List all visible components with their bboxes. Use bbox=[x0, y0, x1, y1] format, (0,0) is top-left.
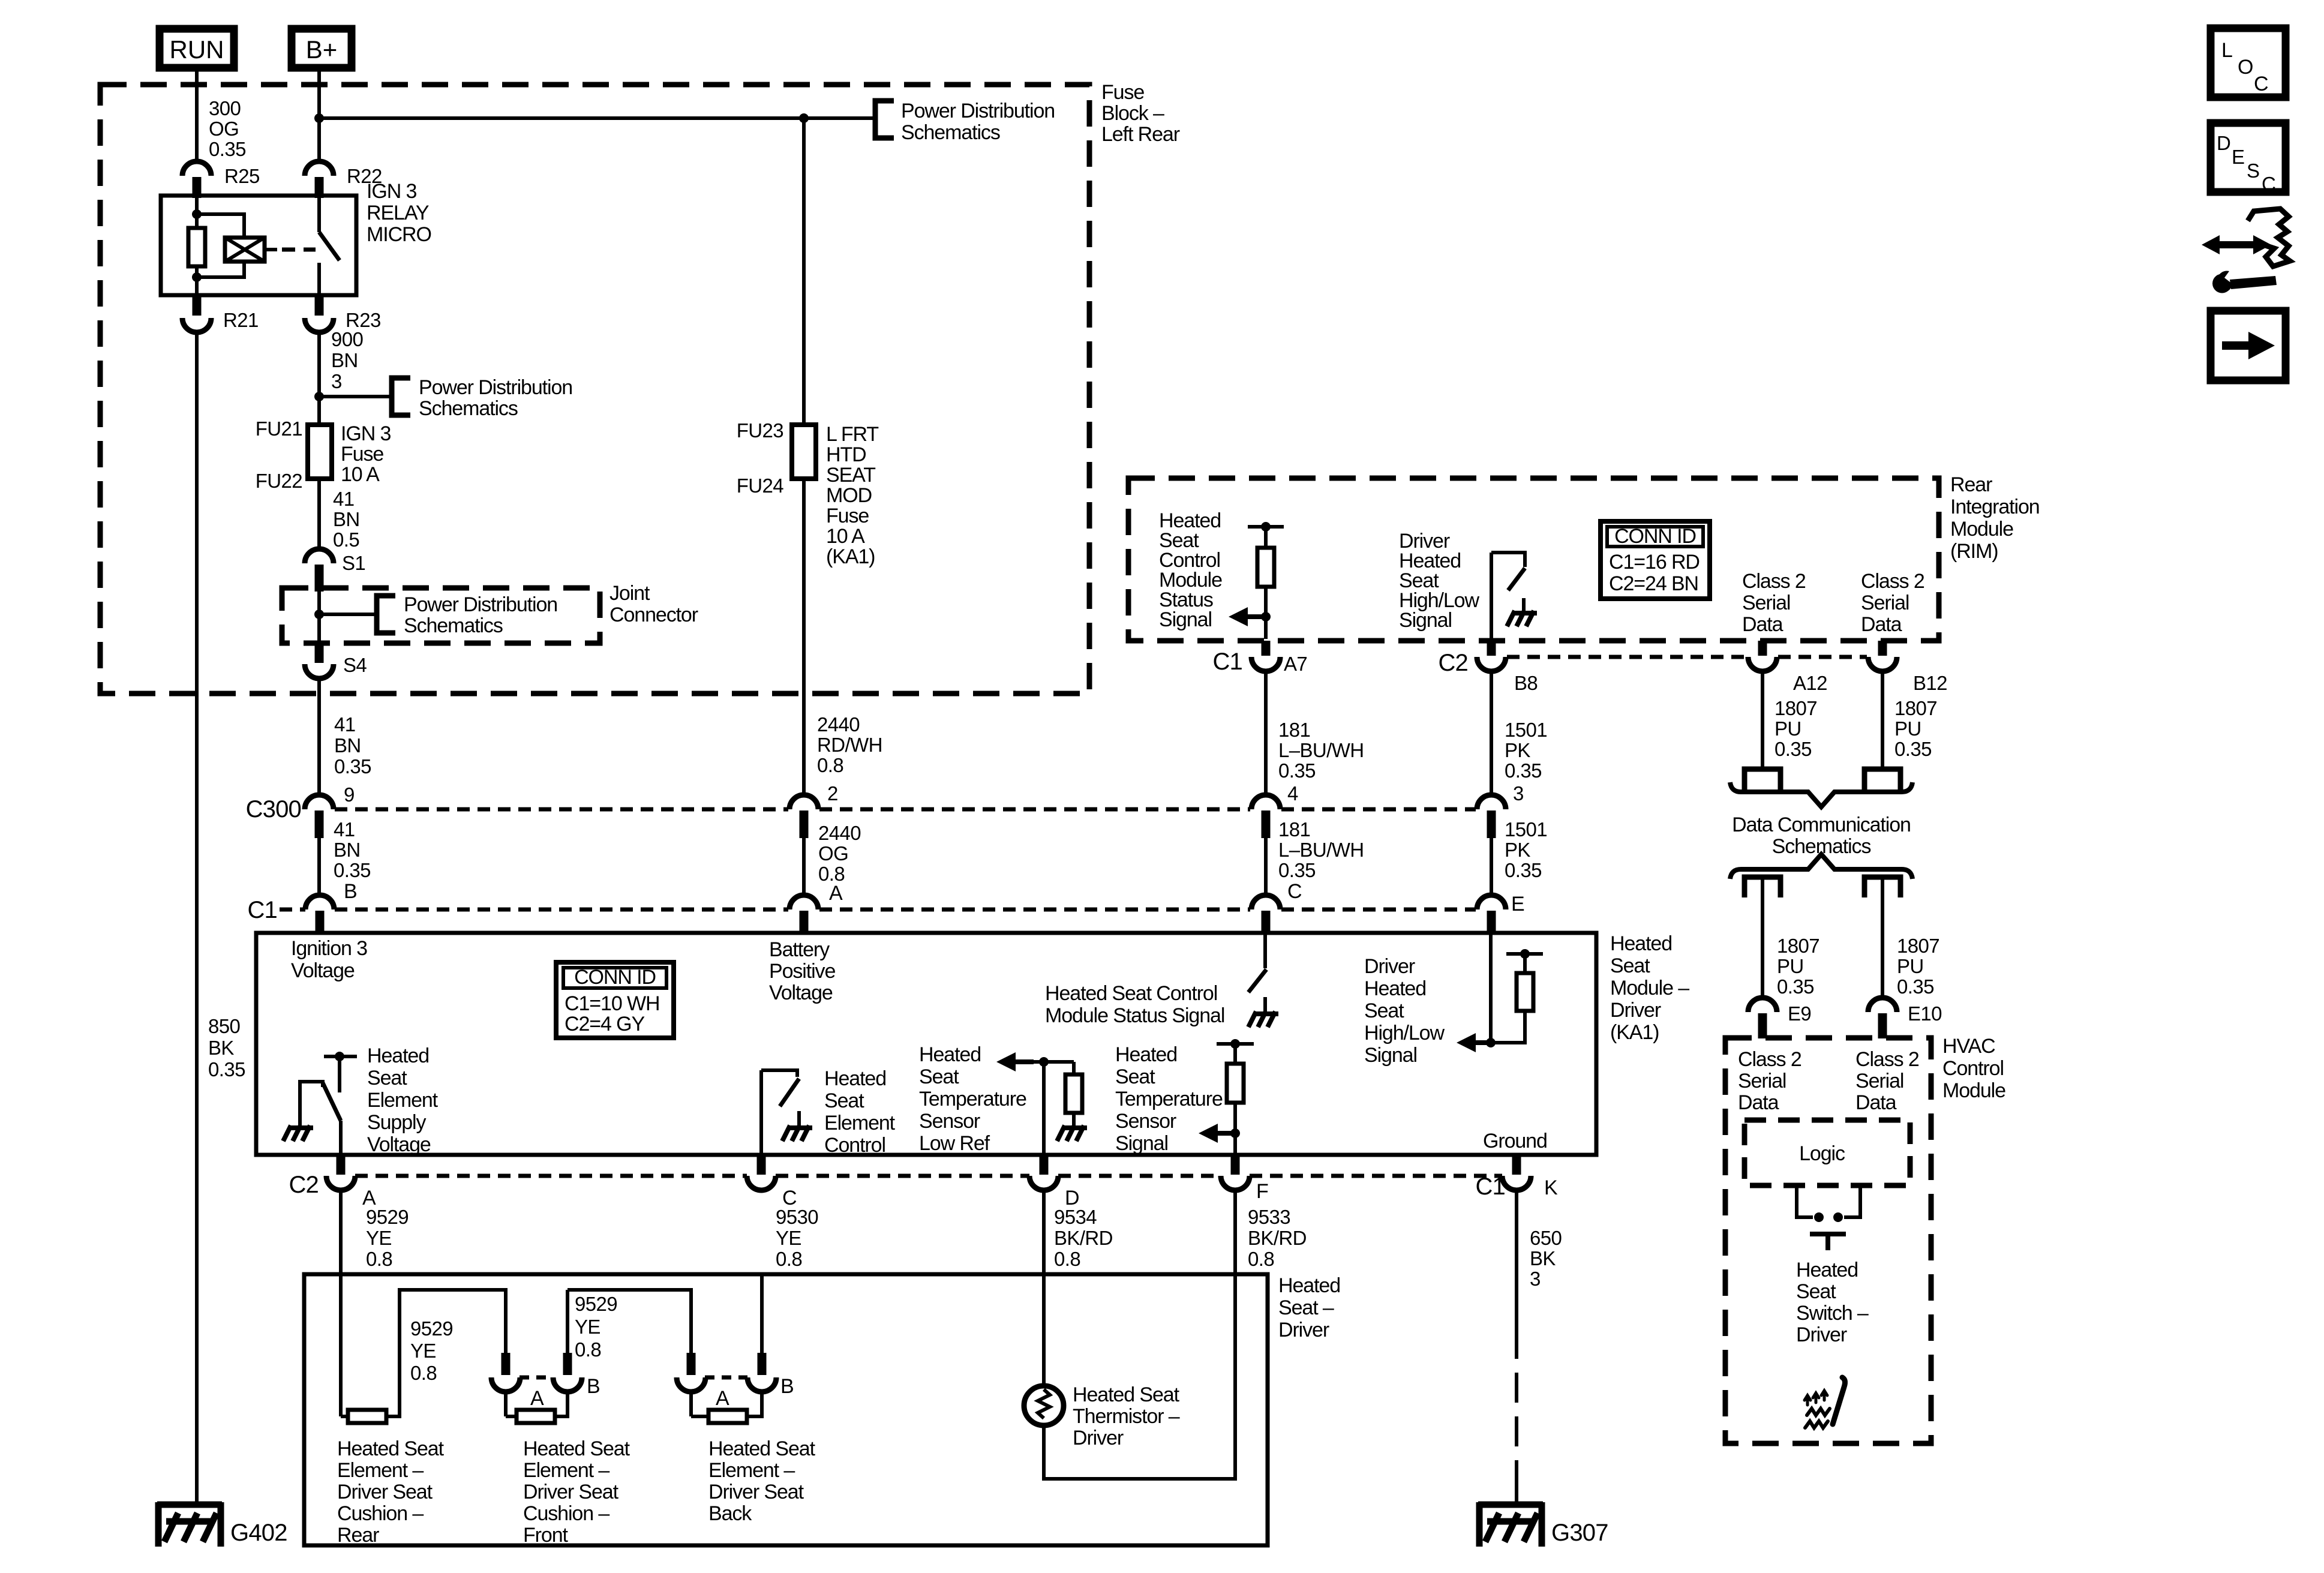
svg-text:Ignition 3: Ignition 3 bbox=[291, 937, 367, 960]
svg-text:9529: 9529 bbox=[366, 1206, 409, 1228]
relay switch arm bbox=[319, 232, 340, 260]
svg-text:R21: R21 bbox=[223, 309, 259, 331]
switch common T terminal bbox=[1810, 1232, 1846, 1236]
ground (supply switch) bbox=[283, 1125, 313, 1141]
svg-text:Heated: Heated bbox=[1278, 1274, 1340, 1297]
arrow high/low in bbox=[1457, 1033, 1476, 1052]
svg-text:(KA1): (KA1) bbox=[826, 545, 875, 568]
heated seat element driver seat back (resistor) bbox=[689, 1391, 693, 1416]
switch arm (supply) bbox=[323, 1083, 341, 1121]
svg-text:Serial: Serial bbox=[1855, 1070, 1903, 1092]
svg-text:A: A bbox=[530, 1387, 544, 1410]
svg-text:Data: Data bbox=[1738, 1091, 1779, 1114]
connector C1 pin C bbox=[1251, 895, 1280, 909]
svg-text:3: 3 bbox=[331, 370, 342, 392]
wire to C2-D bbox=[1042, 1062, 1046, 1155]
svg-text:181: 181 bbox=[1278, 818, 1310, 840]
svg-text:9534: 9534 bbox=[1054, 1206, 1097, 1228]
connector pin A12 bbox=[1748, 657, 1777, 671]
svg-text:A: A bbox=[829, 882, 843, 905]
tab Power Distribution Schematics (joint) bbox=[377, 596, 395, 633]
svg-text:Fuse: Fuse bbox=[341, 443, 383, 466]
svg-text:1501: 1501 bbox=[1505, 719, 1547, 741]
svg-text:C: C bbox=[2262, 173, 2275, 195]
connector R25 bbox=[182, 161, 211, 176]
ground (element control switch) bbox=[782, 1125, 812, 1141]
svg-text:C2: C2 bbox=[1438, 650, 1468, 676]
wire 181 L-BU/WH lower bbox=[1264, 838, 1268, 895]
svg-text:L–BU/WH: L–BU/WH bbox=[1278, 739, 1364, 761]
svg-text:2440: 2440 bbox=[818, 822, 861, 844]
svg-text:Integration: Integration bbox=[1950, 496, 2040, 518]
svg-text:Data: Data bbox=[1861, 613, 1902, 636]
tab Power Distribution Schematics (B+) bbox=[875, 101, 894, 138]
svg-text:E9: E9 bbox=[1788, 1002, 1811, 1025]
connector R22 bbox=[305, 161, 334, 176]
svg-text:0.8: 0.8 bbox=[1054, 1248, 1080, 1270]
wire C pin to switch bbox=[759, 1070, 763, 1155]
wire 9530 element3 B to C bbox=[760, 1274, 764, 1353]
svg-text:Module: Module bbox=[1950, 518, 2013, 541]
svg-text:Logic: Logic bbox=[1799, 1142, 1845, 1165]
switch ground lead bbox=[1522, 598, 1526, 613]
svg-text:Heated: Heated bbox=[1610, 932, 1672, 955]
connector element3 pin B bbox=[747, 1377, 776, 1392]
svg-text:C2=24 BN: C2=24 BN bbox=[1609, 572, 1698, 595]
wire 9534 to thermistor bbox=[1042, 1190, 1046, 1386]
svg-text:Driver: Driver bbox=[1364, 955, 1415, 978]
terminal from data communication (E9) bbox=[1744, 877, 1780, 897]
connector C300 pin 9 bbox=[305, 795, 334, 809]
svg-text:Class 2: Class 2 bbox=[1738, 1048, 1801, 1071]
connector C2 pin C bbox=[747, 1176, 776, 1190]
svg-text:0.8: 0.8 bbox=[1248, 1248, 1274, 1270]
wire 1807 PU upper left bbox=[1761, 671, 1764, 769]
relay IGN 3 RELAY MICRO box bbox=[161, 196, 356, 295]
ground (RIM high/low switch) bbox=[1507, 611, 1537, 626]
connector R23 bbox=[305, 318, 334, 332]
Heated Seat - Driver box bbox=[304, 1274, 1268, 1545]
wire 181 L-BU/WH upper bbox=[1264, 671, 1268, 795]
svg-text:Heated: Heated bbox=[1115, 1043, 1177, 1066]
svg-text:MOD: MOD bbox=[826, 484, 872, 507]
wire 41 BN 0.5 bbox=[317, 479, 321, 550]
svg-text:CONN ID: CONN ID bbox=[1614, 525, 1696, 548]
wire RUN feed 300 OG bbox=[195, 71, 199, 163]
svg-text:1807: 1807 bbox=[1774, 697, 1817, 719]
svg-text:Class 2: Class 2 bbox=[1855, 1048, 1919, 1071]
svg-text:OG: OG bbox=[209, 118, 239, 140]
svg-text:IGN 3: IGN 3 bbox=[341, 422, 391, 445]
connector pin E10 bbox=[1868, 998, 1897, 1012]
svg-text:Positive: Positive bbox=[769, 960, 835, 983]
svg-text:Left Rear: Left Rear bbox=[1101, 123, 1180, 146]
svg-text:41: 41 bbox=[333, 488, 355, 510]
svg-text:G402: G402 bbox=[230, 1520, 287, 1546]
switch contact dot right bbox=[1833, 1212, 1843, 1222]
svg-text:Driver Seat: Driver Seat bbox=[523, 1481, 619, 1503]
svg-text:2: 2 bbox=[827, 782, 838, 804]
svg-text:Signal: Signal bbox=[1399, 609, 1452, 632]
connector C2 pin D bbox=[1029, 1176, 1058, 1190]
svg-text:D: D bbox=[2217, 132, 2230, 154]
svg-text:1807: 1807 bbox=[1894, 697, 1937, 719]
svg-text:9529: 9529 bbox=[410, 1317, 453, 1340]
connector element2 pin A bbox=[491, 1377, 520, 1392]
heated seat element driver seat cushion front (resistor) bbox=[504, 1391, 508, 1416]
svg-text:Class 2: Class 2 bbox=[1861, 570, 1924, 593]
Heated Seat Module - Driver box bbox=[256, 933, 1596, 1155]
svg-text:Serial: Serial bbox=[1742, 592, 1790, 614]
wire element2 B riser bbox=[566, 1290, 569, 1353]
svg-text:S1: S1 bbox=[342, 552, 365, 574]
svg-text:Seat: Seat bbox=[1115, 1065, 1155, 1088]
wire thermistor loop to F bbox=[1044, 1274, 1235, 1479]
svg-text:Heated Seat: Heated Seat bbox=[337, 1437, 445, 1460]
connector C2 pin A bbox=[326, 1176, 355, 1190]
wire 41 BN 0.35 to C300 bbox=[317, 679, 321, 795]
wire 1807 PU lower right bbox=[1881, 877, 1884, 998]
wire relay coil branch lower bbox=[195, 266, 199, 295]
inline pair dash (element3) bbox=[705, 1376, 747, 1380]
ground lead (status) bbox=[1263, 997, 1267, 1014]
svg-text:Element: Element bbox=[367, 1089, 439, 1112]
svg-text:4: 4 bbox=[1287, 782, 1298, 804]
svg-text:Power Distribution: Power Distribution bbox=[404, 593, 557, 616]
svg-text:0.35: 0.35 bbox=[1774, 738, 1812, 760]
svg-text:YE: YE bbox=[575, 1316, 600, 1338]
svg-text:MICRO: MICRO bbox=[367, 223, 431, 246]
svg-text:Control: Control bbox=[1942, 1057, 2004, 1080]
svg-text:0.35: 0.35 bbox=[1777, 975, 1814, 998]
svg-text:Driver Seat: Driver Seat bbox=[337, 1481, 433, 1503]
svg-text:FU23: FU23 bbox=[737, 419, 783, 442]
junction joint connector bbox=[314, 610, 324, 619]
svg-text:BK/RD: BK/RD bbox=[1248, 1227, 1307, 1249]
junction B+ tap bbox=[314, 113, 324, 123]
svg-text:BN: BN bbox=[331, 349, 358, 371]
brace upper bbox=[1730, 782, 1912, 807]
wire element1 to pair A bbox=[386, 1290, 506, 1416]
junction signal out bbox=[1230, 1128, 1240, 1138]
svg-text:FU22: FU22 bbox=[256, 470, 302, 492]
svg-text:Element –: Element – bbox=[708, 1459, 795, 1482]
Logic dashed box bbox=[1744, 1120, 1910, 1185]
svg-text:E: E bbox=[1511, 893, 1524, 915]
RIM CONN ID table bbox=[1601, 521, 1710, 599]
svg-text:S4: S4 bbox=[343, 654, 367, 676]
svg-text:0.35: 0.35 bbox=[1505, 859, 1542, 881]
temperature sensor signal network bbox=[1217, 1042, 1254, 1046]
svg-text:K: K bbox=[1544, 1176, 1558, 1199]
svg-text:RUN: RUN bbox=[170, 35, 224, 64]
svg-text:C2: C2 bbox=[289, 1172, 319, 1198]
RIM high/low switch bbox=[1490, 553, 1493, 639]
connector row C2/serial dashed bbox=[1507, 655, 1747, 659]
wire to relay coil bbox=[197, 214, 244, 238]
svg-text:BK/RD: BK/RD bbox=[1054, 1227, 1113, 1249]
connector row C1 dashed bbox=[335, 908, 788, 912]
svg-text:0.35: 0.35 bbox=[334, 755, 371, 778]
connector C1 pin K bbox=[1502, 1176, 1531, 1190]
svg-text:B8: B8 bbox=[1514, 672, 1538, 694]
svg-text:Driver: Driver bbox=[1073, 1427, 1124, 1449]
svg-text:Seat: Seat bbox=[367, 1067, 407, 1089]
svg-text:BK: BK bbox=[208, 1037, 234, 1059]
switch contact dot left bbox=[1814, 1212, 1824, 1222]
wire 2440 RD/WH 0.8 bbox=[802, 479, 806, 795]
svg-text:Seat: Seat bbox=[1364, 999, 1404, 1022]
icon wrench/location pointer bbox=[2202, 209, 2290, 293]
wire 650 BK dashed continuation bbox=[1515, 1329, 1518, 1490]
wire through joint connector bbox=[317, 592, 321, 643]
svg-text:650: 650 bbox=[1530, 1227, 1562, 1249]
svg-text:Voltage: Voltage bbox=[769, 981, 833, 1004]
connector C300 pin 3 bbox=[1477, 795, 1506, 809]
svg-text:Seat: Seat bbox=[919, 1065, 959, 1088]
relay resistor bbox=[188, 228, 205, 266]
resistor low ref pull bbox=[1065, 1074, 1082, 1113]
wire 900 BN 3 bbox=[317, 332, 321, 425]
wire relay coil branch upper bbox=[195, 196, 199, 228]
heated seat element driver seat cushion rear (resistor) bbox=[341, 1415, 348, 1418]
svg-text:Driver Seat: Driver Seat bbox=[708, 1481, 804, 1503]
svg-text:300: 300 bbox=[209, 97, 241, 119]
fuse FU23/FU24 L FRT HTD SEAT MOD Fuse 10A bbox=[792, 425, 816, 479]
connector R21 bbox=[182, 318, 211, 332]
svg-text:Fuse: Fuse bbox=[1101, 81, 1144, 104]
svg-text:YE: YE bbox=[366, 1227, 392, 1249]
svg-text:9529: 9529 bbox=[575, 1293, 617, 1315]
ground G307 bbox=[1478, 1502, 1543, 1547]
svg-text:Power Distribution: Power Distribution bbox=[419, 376, 572, 399]
wire 2440 OG 0.8 to C1-A bbox=[802, 838, 806, 895]
svg-text:10 A: 10 A bbox=[826, 525, 865, 548]
svg-text:C: C bbox=[1287, 880, 1302, 903]
svg-text:SEAT: SEAT bbox=[826, 464, 875, 487]
svg-text:B: B bbox=[344, 880, 357, 903]
svg-text:C: C bbox=[2254, 73, 2268, 95]
svg-text:S: S bbox=[2247, 160, 2259, 182]
svg-text:9: 9 bbox=[344, 784, 355, 806]
svg-text:0.35: 0.35 bbox=[1278, 859, 1316, 881]
connector C1 pin A bbox=[789, 895, 818, 909]
connector C1 pin E bbox=[1477, 895, 1506, 909]
fuse FU21/FU22 IGN 3 Fuse 10A bbox=[308, 425, 332, 479]
svg-text:Rear: Rear bbox=[337, 1524, 379, 1547]
svg-text:C300: C300 bbox=[246, 796, 301, 822]
svg-text:10 A: 10 A bbox=[341, 463, 380, 486]
wire 1501 PK lower bbox=[1490, 838, 1493, 895]
svg-text:BN: BN bbox=[333, 508, 360, 530]
svg-text:0.8: 0.8 bbox=[776, 1248, 802, 1270]
wire B+ bus to FU23 bbox=[319, 116, 875, 120]
svg-text:PU: PU bbox=[1897, 955, 1924, 977]
svg-text:Heated: Heated bbox=[367, 1044, 429, 1067]
svg-text:C1: C1 bbox=[247, 897, 277, 923]
wire 1807 PU upper right bbox=[1881, 671, 1884, 769]
svg-text:0.8: 0.8 bbox=[410, 1362, 437, 1384]
svg-text:0.35: 0.35 bbox=[209, 138, 246, 160]
heated seat element supply voltage switch bbox=[324, 1055, 357, 1058]
svg-text:Class 2: Class 2 bbox=[1742, 570, 1806, 593]
svg-text:Fuse: Fuse bbox=[826, 505, 869, 527]
wire 1807 PU lower left bbox=[1761, 877, 1764, 998]
svg-text:BN: BN bbox=[334, 734, 361, 757]
svg-text:(RIM): (RIM) bbox=[1950, 540, 1998, 563]
svg-text:Joint: Joint bbox=[609, 582, 650, 605]
svg-text:B: B bbox=[587, 1375, 600, 1398]
svg-text:41: 41 bbox=[334, 818, 355, 840]
svg-text:Sensor: Sensor bbox=[919, 1110, 980, 1133]
svg-text:Driver: Driver bbox=[1278, 1319, 1329, 1341]
svg-text:1807: 1807 bbox=[1777, 935, 1819, 957]
svg-text:Ground: Ground bbox=[1483, 1130, 1547, 1152]
svg-text:Serial: Serial bbox=[1861, 592, 1909, 614]
svg-text:Signal: Signal bbox=[1115, 1132, 1168, 1155]
svg-text:0.5: 0.5 bbox=[333, 529, 359, 551]
connector element2 pin B bbox=[553, 1377, 582, 1392]
svg-text:0.8: 0.8 bbox=[817, 754, 843, 776]
wire B+ feed bbox=[317, 71, 321, 163]
svg-text:Module Status Signal: Module Status Signal bbox=[1045, 1004, 1224, 1027]
connector row C300 dashed bbox=[335, 807, 788, 812]
svg-text:Element –: Element – bbox=[523, 1459, 609, 1482]
svg-text:R25: R25 bbox=[224, 165, 260, 187]
svg-text:Cushion –: Cushion – bbox=[523, 1502, 609, 1525]
switch jog (element control) bbox=[761, 1070, 797, 1077]
svg-text:Heated Seat Control: Heated Seat Control bbox=[1045, 982, 1217, 1005]
HVAC Control Module dashed box bbox=[1725, 1038, 1931, 1443]
heated seat icon bbox=[1804, 1377, 1845, 1428]
svg-text:9530: 9530 bbox=[776, 1206, 818, 1228]
junction low ref bbox=[1039, 1057, 1049, 1067]
svg-text:1501: 1501 bbox=[1505, 818, 1547, 840]
svg-text:L–BU/WH: L–BU/WH bbox=[1278, 839, 1364, 861]
wire 1501 PK upper bbox=[1490, 671, 1493, 795]
svg-text:B+: B+ bbox=[306, 35, 338, 64]
switch arm (element control) bbox=[780, 1079, 799, 1106]
wire 850 BK to G402 bbox=[195, 332, 199, 1503]
svg-text:RD/WH: RD/WH bbox=[817, 734, 882, 756]
svg-text:Module: Module bbox=[1942, 1079, 2005, 1102]
svg-text:PK: PK bbox=[1505, 839, 1530, 861]
heated seat switch contacts bbox=[1797, 1185, 1813, 1217]
svg-text:Low Ref: Low Ref bbox=[919, 1132, 990, 1155]
svg-text:Front: Front bbox=[523, 1524, 569, 1547]
svg-text:OG: OG bbox=[818, 842, 848, 864]
connector element3 pin A bbox=[677, 1377, 705, 1392]
junction signal T-bar bbox=[1230, 1039, 1240, 1049]
svg-text:FU24: FU24 bbox=[737, 475, 784, 497]
svg-text:Seat: Seat bbox=[1796, 1280, 1836, 1303]
junction 900 BN tap bbox=[314, 392, 324, 401]
resistor signal pull bbox=[1227, 1064, 1244, 1103]
svg-text:0.35: 0.35 bbox=[1278, 760, 1316, 782]
connector row C1 dashed left bbox=[280, 908, 305, 912]
svg-text:PK: PK bbox=[1505, 739, 1530, 761]
svg-text:Switch –: Switch – bbox=[1796, 1302, 1869, 1325]
heated seat thermistor driver bbox=[1024, 1386, 1064, 1425]
svg-text:Block –: Block – bbox=[1101, 102, 1164, 125]
svg-text:CONN ID: CONN ID bbox=[574, 966, 656, 989]
coil actuator lead bbox=[265, 248, 277, 251]
junction FU23 tap bbox=[799, 113, 809, 123]
wire 2440 feed to FU23 bbox=[802, 118, 806, 425]
svg-text:Heated: Heated bbox=[824, 1067, 886, 1090]
svg-text:0.8: 0.8 bbox=[575, 1338, 601, 1361]
resistor high/low pull bbox=[1517, 973, 1533, 1011]
svg-text:Serial: Serial bbox=[1738, 1070, 1786, 1092]
svg-text:1807: 1807 bbox=[1897, 935, 1939, 957]
terminal box RUN bbox=[160, 29, 234, 68]
svg-text:L: L bbox=[2221, 39, 2232, 62]
fuse block dashed box (Fuse Block - Left Rear) bbox=[100, 85, 1089, 694]
svg-text:2440: 2440 bbox=[817, 713, 860, 736]
svg-text:Thermistor –: Thermistor – bbox=[1073, 1405, 1180, 1428]
connector C300 pin 4 bbox=[1251, 795, 1280, 809]
module CONN ID table bbox=[556, 962, 674, 1038]
svg-text:HVAC: HVAC bbox=[1942, 1035, 1995, 1058]
svg-text:Cushion –: Cushion – bbox=[337, 1502, 424, 1525]
terminal box B+ bbox=[292, 29, 352, 68]
svg-text:BN: BN bbox=[334, 839, 361, 861]
wire 9533 to thermistor loop bbox=[1233, 1190, 1237, 1274]
svg-text:Heated: Heated bbox=[1364, 977, 1426, 1000]
svg-text:0.35: 0.35 bbox=[1897, 975, 1934, 998]
svg-text:Seat: Seat bbox=[1610, 954, 1650, 977]
svg-text:3: 3 bbox=[1513, 782, 1524, 804]
wire C1-C to status switch bbox=[1263, 933, 1267, 968]
svg-text:Temperature: Temperature bbox=[1115, 1088, 1223, 1110]
ground (status switch) bbox=[1248, 1011, 1278, 1027]
ground G402 bbox=[157, 1502, 222, 1547]
terminal from data communication (E10) bbox=[1864, 877, 1900, 897]
icon LOC bbox=[2211, 28, 2286, 97]
arrow low ref bbox=[996, 1052, 1016, 1071]
connector row C2 dashed bbox=[355, 1174, 747, 1178]
svg-text:PU: PU bbox=[1774, 718, 1801, 740]
svg-text:Seat: Seat bbox=[824, 1089, 864, 1112]
connector C300 pin 2 bbox=[789, 795, 818, 809]
switch arm high/low bbox=[1508, 568, 1525, 590]
ground lead (element control) bbox=[797, 1111, 801, 1128]
tab Power Distribution Schematics (IGN3) bbox=[392, 378, 410, 415]
wire C1-E to high/low bbox=[1489, 933, 1493, 1043]
svg-text:0.35: 0.35 bbox=[1894, 738, 1932, 760]
svg-text:HTD: HTD bbox=[826, 443, 866, 466]
connector C1 pin B bbox=[305, 895, 334, 909]
svg-text:Driver: Driver bbox=[1796, 1323, 1847, 1346]
arrow signal out bbox=[1199, 1124, 1218, 1143]
svg-text:C2=4 GY: C2=4 GY bbox=[565, 1013, 645, 1035]
svg-text:0.35: 0.35 bbox=[1505, 760, 1542, 782]
svg-text:Element: Element bbox=[824, 1112, 896, 1134]
junction supply contact bbox=[335, 1052, 344, 1061]
brace lower bbox=[1730, 854, 1912, 879]
svg-text:Schematics: Schematics bbox=[901, 121, 1000, 144]
wire 41 BN 0.35 to C1-B bbox=[317, 838, 321, 895]
svg-text:3: 3 bbox=[1530, 1268, 1541, 1290]
icon forward arrow bbox=[2211, 311, 2286, 380]
svg-text:0.35: 0.35 bbox=[208, 1058, 245, 1080]
svg-text:Schematics: Schematics bbox=[404, 614, 503, 637]
svg-text:Heated Seat: Heated Seat bbox=[708, 1437, 816, 1460]
inline pair dash (element2) bbox=[520, 1376, 553, 1380]
svg-text:A: A bbox=[716, 1387, 729, 1410]
svg-text:Data: Data bbox=[1855, 1091, 1897, 1114]
svg-text:Module –: Module – bbox=[1610, 977, 1689, 999]
